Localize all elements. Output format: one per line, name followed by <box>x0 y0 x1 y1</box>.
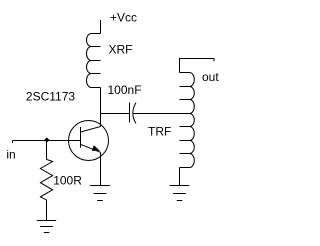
ground (TRF) <box>170 186 190 201</box>
svg-text:XRF: XRF <box>109 43 133 57</box>
svg-text:100R: 100R <box>53 173 82 187</box>
transistor base bar <box>80 127 82 148</box>
inductor TRF <box>180 73 195 168</box>
wire: collector node to capacitor <box>101 113 130 115</box>
wire: node to resistor <box>46 141 48 160</box>
transistor emitter arrow <box>92 145 100 151</box>
wire: resistor to ground <box>46 200 48 221</box>
node dot (base junction) <box>44 137 49 142</box>
resistor R1 100R zigzag <box>40 159 52 200</box>
wire: capacitor to TRF <box>133 113 190 115</box>
svg-text:100nF: 100nF <box>108 83 142 97</box>
capacitor C1 100nF left plate <box>129 103 131 123</box>
svg-text:in: in <box>6 147 15 161</box>
transistor collector line <box>81 127 101 133</box>
in terminal wire <box>13 141 81 144</box>
transistor emitter line <box>81 144 101 152</box>
wire: XRF bottom to collector node <box>100 88 102 127</box>
out terminal wire <box>180 59 215 73</box>
capacitor C1 100nF right curved plate <box>133 103 136 124</box>
svg-text:out: out <box>202 70 219 84</box>
ground (emitter) <box>90 186 110 201</box>
+Vcc power wire <box>100 20 102 34</box>
ground (resistor) <box>37 221 56 233</box>
wire: emitter to ground <box>100 152 102 185</box>
svg-text:+Vcc: +Vcc <box>110 10 137 24</box>
svg-text:2SC1173: 2SC1173 <box>26 90 75 104</box>
transistor Q1 2SC1173 circle <box>69 121 109 161</box>
svg-text:TRF: TRF <box>148 124 171 138</box>
wire: TRF bottom to ground <box>179 168 181 186</box>
inductor XRF <box>87 34 101 88</box>
